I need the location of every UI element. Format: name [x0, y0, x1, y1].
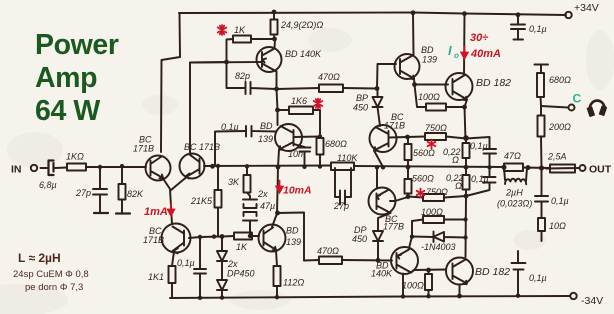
- wire: driver emitter vertical: [409, 221, 412, 248]
- transistor Q BD182 lower output: [446, 258, 473, 285]
- resistor 3K: [244, 175, 251, 193]
- wire: 1K6 right to 680 column: [313, 110, 320, 137]
- resistor 680Ω VAS: [317, 138, 324, 155]
- svg-text:Amp: Amp: [35, 62, 97, 94]
- wire: lower 470 line: [304, 259, 319, 262]
- node mid rail 0,1: [487, 165, 491, 169]
- svg-text:47µ: 47µ: [260, 201, 275, 211]
- node driver/base lower: [376, 258, 381, 263]
- resistor 112Ω: [274, 266, 281, 286]
- wire: 27p stub down: [99, 167, 101, 188]
- wire: 82K stub down: [121, 166, 123, 184]
- resistor 560Ω lower: [407, 168, 409, 180]
- svg-text:10Ω: 10Ω: [549, 221, 566, 231]
- node BP450 top: [375, 86, 380, 91]
- svg-text:139: 139: [258, 134, 273, 144]
- wire: T4 emitter to 112: [276, 251, 277, 267]
- wire: VAS base to 680 node: [294, 136, 321, 139]
- svg-text:450: 450: [353, 103, 368, 113]
- transistor Q BD182 upper output: [446, 73, 473, 100]
- transistor Q BD139 upper driver: [395, 54, 420, 79]
- resistor 1K1: [169, 266, 176, 283]
- svg-text:27p: 27p: [75, 188, 91, 198]
- svg-text:750Ω: 750Ω: [426, 187, 448, 197]
- node mid rail VAS: [276, 165, 281, 170]
- svg-text:82K: 82K: [127, 189, 144, 199]
- ground for 27p: [94, 212, 108, 214]
- capacitor 0,1µ lower output: [466, 168, 496, 197]
- svg-text:1K: 1K: [234, 25, 246, 35]
- transistor Q BD139 VAS upper: [275, 124, 302, 151]
- wire: 680 top bar: [535, 65, 549, 74]
- wire: BD182 lower collector to bottom rail: [459, 285, 461, 296]
- svg-text:2x: 2x: [227, 259, 238, 269]
- node top rail A: [272, 10, 277, 15]
- resistor 1K bias: [234, 233, 252, 240]
- wire: lower node chain down: [465, 196, 468, 257]
- svg-text:2,5A: 2,5A: [547, 152, 567, 162]
- svg-text:+34V: +34V: [574, 2, 599, 14]
- wire: BD182 collector to top rail: [463, 14, 466, 76]
- capacitor 0,1µ supply decoupling: [511, 15, 525, 40]
- wire: driver collector to bottom rail: [402, 274, 404, 297]
- svg-text:L ≈ 2µH: L ≈ 2µH: [18, 251, 61, 265]
- svg-text:0,1µ: 0,1µ: [221, 122, 239, 132]
- node driver emitter: [412, 82, 417, 87]
- node output fuse: [539, 165, 544, 170]
- resistor 750Ω lower: [408, 197, 423, 198]
- resistor 0,22Ω lower: [465, 167, 467, 175]
- svg-text:1mA: 1mA: [144, 206, 168, 218]
- svg-text:24sp CuEM Φ 0,8: 24sp CuEM Φ 0,8: [13, 269, 89, 280]
- wire: driver emitter to BD182 base: [411, 270, 446, 273]
- wire: emitter node to 470: [277, 88, 320, 89]
- wire: BD140K emitter down: [277, 72, 278, 111]
- resistor 10Ω zobel: [538, 218, 545, 231]
- node VAS base: [318, 134, 322, 138]
- terminal IN: [31, 165, 37, 171]
- wire: 2x47µ caps down to bias row: [249, 222, 251, 236]
- svg-text:27p: 27p: [333, 201, 349, 211]
- svg-text:680Ω: 680Ω: [549, 75, 571, 85]
- wire: T4 collector up to mid rail: [272, 168, 278, 228]
- wire: T2 collector up to BD140K base line: [189, 63, 191, 153]
- svg-text:139: 139: [422, 55, 437, 65]
- wire: 3K stub: [246, 167, 248, 176]
- wire: 82K to ground: [121, 200, 123, 213]
- ground for 82K: [116, 212, 130, 214]
- svg-text:82p: 82p: [235, 71, 250, 81]
- svg-text:2x: 2x: [257, 189, 268, 199]
- node bottom rail 112: [275, 295, 279, 299]
- wire: cap to 1K resistor: [55, 167, 67, 170]
- capacitor 0,1µ zobel: [535, 168, 548, 218]
- wire: 0,1µ lag comp from rail: [215, 131, 245, 166]
- svg-text:10mA: 10mA: [283, 185, 312, 197]
- svg-text:10n: 10n: [288, 149, 303, 159]
- svg-text:I: I: [448, 43, 452, 58]
- wire: driver emitter node: [413, 79, 416, 85]
- svg-text:pe dorn Φ 7,3: pe dorn Φ 7,3: [25, 282, 83, 293]
- node 1N4003 left: [410, 235, 414, 239]
- terminal C headphone jack: [569, 105, 575, 111]
- svg-text:171B: 171B: [143, 235, 164, 245]
- svg-text:100Ω: 100Ω: [421, 207, 443, 217]
- transistor Q BD140K pre-driver: [257, 47, 282, 72]
- node bottom rail BD182: [457, 294, 462, 299]
- node mid rail lag: [210, 164, 215, 169]
- capacitor 82p: [246, 82, 277, 94]
- svg-text:0,1µ: 0,1µ: [529, 24, 547, 34]
- svg-text:BD: BD: [286, 226, 299, 236]
- node mid rail mult: [381, 165, 385, 169]
- resistor 82K input bias: [119, 184, 126, 200]
- node 100 mid-lower right: [463, 217, 467, 221]
- svg-text:47Ω: 47Ω: [504, 151, 521, 161]
- resistor 750Ω upper: [407, 136, 425, 139]
- resistor 470Ω lower: [319, 257, 342, 265]
- resistor 21K5: [215, 190, 222, 208]
- node mid rail 100: [98, 165, 102, 169]
- capacitor 6,8µ input coupling: [49, 161, 54, 176]
- node mid rail 680: [318, 164, 322, 168]
- transistor T1 BC171B input: [146, 156, 171, 181]
- node mid rail 560: [406, 165, 411, 170]
- transistor Q BD140K lower driver: [391, 247, 418, 274]
- svg-text:BP: BP: [356, 93, 368, 103]
- svg-text:-34V: -34V: [581, 295, 603, 307]
- resistor 1KΩ input series: [67, 164, 86, 171]
- wire: 21K5 stub: [217, 166, 219, 190]
- node bottom rail 0,1µ right: [516, 294, 520, 298]
- node 750 lower left: [406, 194, 411, 199]
- diode DP450 a: [217, 251, 227, 279]
- diode 1N4003: [412, 232, 466, 243]
- resistor 47Ω output series: [504, 164, 523, 172]
- svg-text:470Ω: 470Ω: [318, 72, 340, 82]
- wire: BC177B top to rail: [376, 168, 378, 189]
- marker asterisk 2 (1K6): [314, 99, 323, 109]
- svg-text:1K: 1K: [236, 242, 248, 252]
- capacitor 10n: [294, 144, 311, 167]
- marker arrow 1mA: [168, 204, 174, 216]
- marker asterisk 3 (750 upper): [428, 140, 436, 149]
- svg-text:BD 140K: BD 140K: [285, 49, 322, 59]
- svg-text:BD: BD: [260, 121, 273, 131]
- wire: VAS collector from 1K6 node: [277, 110, 279, 125]
- svg-text:560Ω: 560Ω: [413, 148, 435, 158]
- svg-text:1K6: 1K6: [291, 96, 307, 106]
- marker asterisk 1 (1K): [218, 25, 227, 35]
- node top rail D: [516, 12, 521, 17]
- resistor 1K (BD140K collector): [233, 36, 251, 43]
- wire: top-left drop from rail with jog: [161, 13, 180, 152]
- svg-text:750Ω: 750Ω: [425, 123, 447, 133]
- node bottom rail 100: [426, 294, 430, 298]
- node 1K/24,9: [272, 37, 277, 42]
- fuse 2,5A: [550, 165, 575, 173]
- capacitor 2x47µ electrolytic b: [243, 212, 257, 236]
- node mid rail BC177B: [375, 165, 379, 169]
- wire: T3 base to bias row: [189, 237, 222, 239]
- wire: emitter node to BD182 base: [415, 84, 449, 86]
- svg-text:(0,023Ω): (0,023Ω): [497, 199, 532, 209]
- wire: C node to terminal: [541, 106, 568, 108]
- capacitor 0,1µ negative rail decoupling: [512, 251, 526, 296]
- resistor 100Ω bottom: [428, 270, 430, 274]
- diode DP450 lower: [373, 231, 383, 261]
- wire: 1K to T4 base, caps junction: [252, 235, 259, 237]
- node bias row d: [248, 234, 252, 238]
- svg-text:-1N4003: -1N4003: [421, 242, 456, 252]
- wire: 82p tap: [227, 62, 245, 88]
- resistor 24,9Ω vertical from top rail: [273, 12, 275, 20]
- svg-text:0,1µ: 0,1µ: [470, 141, 488, 151]
- node mid rail 21K5: [216, 164, 220, 168]
- svg-text:0,1µ: 0,1µ: [551, 196, 569, 206]
- marker arrow 40mA: [461, 47, 467, 59]
- transistor Q BC171B bias multiplier: [370, 125, 397, 152]
- svg-text:177B: 177B: [383, 222, 404, 232]
- terminal +34V: [565, 12, 571, 18]
- resistor 200Ω headphone: [540, 106, 542, 116]
- svg-text:2µH: 2µH: [505, 188, 523, 198]
- svg-text:30÷: 30÷: [470, 32, 488, 44]
- svg-text:560Ω: 560Ω: [412, 174, 434, 184]
- wire: 100Ω to emitter line: [446, 106, 465, 108]
- wire: BD139 driver collector to rail: [412, 13, 415, 56]
- node 47 left: [502, 165, 507, 170]
- node 1K6 left: [275, 108, 280, 113]
- wire: bias row to 1K: [222, 235, 234, 238]
- wire: joined emitters of diff pair down: [163, 178, 186, 225]
- svg-text:110K: 110K: [337, 153, 358, 163]
- resistor 110K feedback: [331, 163, 354, 171]
- resistor 1K6: [278, 109, 290, 111]
- svg-text:40mA: 40mA: [470, 48, 501, 60]
- svg-text:1KΩ: 1KΩ: [66, 152, 84, 162]
- node 750 lower right: [464, 194, 469, 199]
- svg-text:C: C: [573, 92, 582, 106]
- wire: mult base to 750 node: [389, 136, 408, 139]
- wire: 0,1µ bias cap drop: [199, 237, 201, 268]
- svg-text:171B: 171B: [133, 144, 154, 154]
- headphones icon: [589, 101, 605, 111]
- terminal OUT: [580, 165, 586, 171]
- node mid rail 82K: [120, 164, 124, 168]
- node VAS top: [275, 211, 280, 216]
- svg-text:470Ω: 470Ω: [317, 246, 339, 256]
- resistor 680Ω headphone: [537, 73, 544, 97]
- svg-text:24,9(2Ω)Ω: 24,9(2Ω)Ω: [280, 20, 323, 30]
- wire: VAS emitter to rail: [278, 150, 279, 168]
- node bias row b: [212, 234, 216, 238]
- capacitor 27p feedback parallel: [335, 168, 351, 205]
- capacitor 0,1µ lag: [246, 126, 276, 137]
- node mid rail 3K: [245, 164, 249, 168]
- diode BP450 upper: [373, 89, 383, 127]
- wire: node up to BD139 base: [377, 64, 396, 89]
- svg-text:BC 171B: BC 171B: [184, 142, 220, 152]
- wire: base node left to T2 collector line: [190, 61, 227, 64]
- svg-text:64 W: 64 W: [35, 95, 100, 127]
- wire: mid feedback rail from T2 base to 110K: [204, 165, 331, 168]
- wire: 1K left leg down to base node: [227, 39, 234, 62]
- node bottom rail DP450: [220, 295, 224, 299]
- svg-text:139: 139: [286, 237, 301, 247]
- wire: 110K to output node rail: [354, 166, 504, 167]
- wire: 680 to rail: [319, 155, 321, 167]
- transistor T2 BC171B feedback side (mirrored): [180, 154, 205, 179]
- node coil right: [526, 165, 531, 170]
- svg-text:0,1µ: 0,1µ: [177, 258, 195, 268]
- svg-text:BD 182: BD 182: [476, 77, 511, 89]
- wire: IN to coupling cap: [41, 167, 48, 169]
- resistor 100Ω mid-lower: [412, 220, 423, 222]
- svg-text:BD: BD: [421, 45, 434, 55]
- svg-text:171B: 171B: [384, 121, 405, 131]
- wire: 1K top stub and node: [251, 38, 275, 40]
- node mid rail 0,22: [464, 165, 469, 170]
- wire: 100Ω stub: [415, 85, 427, 108]
- capacitor 2x47µ electrolytic a: [243, 196, 257, 208]
- resistor 560Ω upper: [407, 137, 409, 144]
- wire: +34V top supply rail: [179, 13, 566, 16]
- svg-text:100Ω: 100Ω: [418, 92, 440, 102]
- node BD140K emitter: [274, 87, 279, 92]
- svg-text:680Ω: 680Ω: [325, 139, 347, 149]
- wire: 47 to fuse node: [523, 167, 550, 170]
- svg-text:IN: IN: [11, 164, 22, 176]
- capacitor 27p input: [93, 189, 107, 212]
- svg-text:0,1µ: 0,1µ: [529, 273, 547, 283]
- wire: 680 to C node: [540, 97, 543, 106]
- capacitor 0,1µ upper output: [466, 137, 496, 167]
- node BD140K base: [224, 60, 229, 65]
- node top rail C: [462, 11, 467, 16]
- node 750 upper left: [405, 135, 410, 140]
- svg-text:Power: Power: [35, 29, 119, 61]
- svg-text:o: o: [454, 51, 459, 60]
- inductor 2µH: [504, 168, 527, 185]
- diode DP450 b: [217, 280, 227, 298]
- svg-text:Ω: Ω: [455, 181, 462, 191]
- svg-text:OUT: OUT: [589, 164, 612, 176]
- svg-text:DP450: DP450: [227, 269, 255, 279]
- transistor T3 BC171B current source: [162, 224, 191, 253]
- wire: BC177B base to 560 node: [390, 197, 408, 201]
- node bottom rail driver: [401, 294, 405, 298]
- node bias row c: [220, 234, 225, 239]
- svg-text:6,8µ: 6,8µ: [39, 180, 57, 190]
- wire: T4 collector to lower driver line: [277, 213, 304, 261]
- capacitor 0,1µ bias: [194, 269, 206, 298]
- wire: BD140K base line: [190, 61, 262, 64]
- wire: 200 to output node: [540, 137, 543, 169]
- terminal -34V: [570, 293, 576, 299]
- wire: 470 to diode node: [343, 87, 376, 90]
- svg-text:100Ω: 100Ω: [402, 281, 424, 291]
- node 1N4003 right: [463, 235, 467, 239]
- node BD182 emitter/100: [462, 105, 467, 110]
- svg-text:200Ω: 200Ω: [548, 122, 571, 132]
- svg-text:1K1: 1K1: [148, 272, 164, 282]
- transistor T4 BD139 VAS: [259, 225, 286, 252]
- node top rail B: [411, 10, 416, 15]
- wire: BD140K top to 24,9 node: [274, 39, 277, 49]
- resistor 0,22Ω upper: [465, 139, 467, 144]
- marker asterisk 4 (750 lower): [417, 189, 425, 198]
- node bias row a: [198, 235, 202, 239]
- node bottom rail 0,1µ: [198, 296, 202, 300]
- wire: 21K5 down to bias row: [217, 208, 219, 237]
- wire: diode chain drop: [221, 237, 223, 251]
- wire: T3 emitter to 1K1: [172, 252, 174, 267]
- svg-text:450: 450: [352, 234, 367, 244]
- svg-text:21K5: 21K5: [190, 196, 213, 206]
- transistor Q BC177B lower bias: [369, 188, 396, 215]
- resistor 470Ω upper: [319, 85, 343, 93]
- node 750 upper right: [463, 135, 469, 141]
- wire: 1K to T1 base: [86, 166, 146, 168]
- wire: 1K1 to bottom rail: [171, 283, 173, 298]
- svg-text:112Ω: 112Ω: [283, 278, 304, 288]
- wire: 3K to electrolytics: [247, 193, 250, 197]
- svg-text:3K: 3K: [228, 177, 240, 187]
- wire: BD182 emitter down to 0,22 node: [465, 100, 468, 141]
- marker arrow 10mA: [276, 181, 282, 193]
- resistor 100Ω upper driver: [426, 104, 446, 111]
- svg-text:Ω: Ω: [452, 155, 459, 165]
- wire: 112 to bottom rail: [276, 286, 278, 297]
- svg-text:BD 182: BD 182: [475, 266, 510, 278]
- wire: mult emitter to rail: [374, 151, 383, 168]
- svg-text:0,1µ: 0,1µ: [471, 174, 489, 184]
- node 100 bottom top: [426, 268, 431, 273]
- wire: BC177B emitter to DP450: [378, 213, 391, 230]
- svg-text:140K: 140K: [371, 269, 393, 279]
- node mid rail 10n: [302, 165, 306, 169]
- wire: bottom supply rail -34V: [170, 296, 570, 298]
